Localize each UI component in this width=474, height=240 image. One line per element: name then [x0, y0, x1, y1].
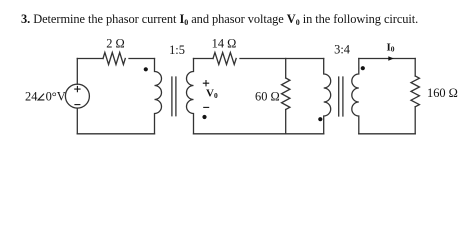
svg-text:V0: V0 [206, 88, 218, 100]
svg-text:0°V: 0°V [46, 89, 66, 103]
V0 plus [203, 80, 209, 86]
svg-text:I0: I0 [387, 41, 395, 53]
transformer T2 core [339, 77, 343, 116]
source minus [74, 104, 80, 106]
dot T2 secondary (top right) [361, 66, 365, 70]
resistor 60ohm [282, 78, 290, 110]
resistor 14ohm [213, 53, 236, 65]
transformer T1 right coil [187, 59, 194, 134]
svg-text:3:4: 3:4 [334, 42, 350, 56]
wire: secondary top right segment [240, 58, 324, 60]
transformer T2 right coil [352, 59, 359, 134]
wire: 160ohm branch bottom lead [414, 107, 416, 134]
title text [21, 12, 418, 27]
transformer T1 left coil [155, 59, 162, 134]
wire: 160ohm branch top lead [414, 59, 416, 77]
wire: secondary top left segment [194, 58, 214, 60]
resistor 160ohm [411, 76, 419, 107]
transformer T2 left coil [324, 59, 331, 134]
wire: 60ohm branch bottom lead [285, 110, 287, 134]
wire: 60ohm branch top lead [285, 59, 287, 79]
dot T2 primary (bottom left) [318, 117, 322, 121]
wire: output mesh top [359, 58, 415, 60]
dot T1 secondary (bottom right) [202, 115, 206, 119]
dot T1 primary (top left) [144, 67, 148, 71]
svg-text:24: 24 [25, 89, 37, 103]
angle symbol of 24 source label [38, 94, 44, 100]
wire: primary bottom [77, 133, 154, 135]
wire: primary left vertical top [76, 59, 78, 85]
wire: output mesh bottom [359, 133, 415, 135]
svg-text:2 Ω: 2 Ω [106, 37, 125, 51]
wire: primary top left segment [77, 58, 103, 60]
svg-text:1:5: 1:5 [169, 43, 185, 57]
svg-text:14 Ω: 14 Ω [212, 37, 237, 51]
svg-text:160 Ω: 160 Ω [427, 86, 458, 100]
V0 minus [203, 106, 209, 108]
wire: primary top right segment [129, 58, 155, 60]
wire: primary left vertical bottom [76, 108, 78, 134]
voltage source 24V circle [65, 84, 89, 108]
transformer T1 core [172, 77, 176, 116]
wire: secondary bottom [194, 133, 324, 135]
resistor 2ohm [103, 53, 125, 65]
svg-text:60 Ω: 60 Ω [255, 89, 280, 103]
current arrow I0 head [388, 56, 394, 60]
source plus [74, 86, 80, 92]
